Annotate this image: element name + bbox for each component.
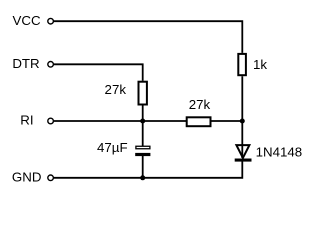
svg-text:27k: 27k [189,97,211,112]
svg-text:RI: RI [20,113,33,128]
svg-text:27k: 27k [105,82,127,97]
svg-text:1k: 1k [253,57,267,72]
svg-text:47µF: 47µF [97,140,128,155]
svg-text:GND: GND [12,169,42,184]
svg-text:DTR: DTR [12,56,39,71]
svg-text:1N4148: 1N4148 [256,144,303,159]
svg-text:VCC: VCC [13,13,41,28]
